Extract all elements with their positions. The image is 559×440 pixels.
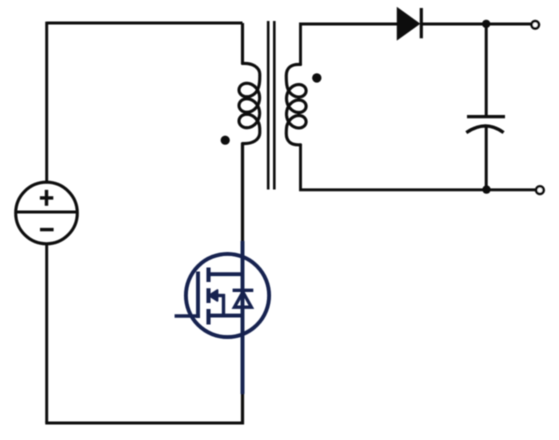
terminal + output [532,21,539,28]
wire left vertical lower [45,244,48,423]
mosfet body circle [186,254,269,337]
dc source V1 [16,182,78,244]
transformer core [268,21,274,190]
node junction top [482,20,490,28]
wire primary top lead [241,23,244,64]
mosfet gate bar [196,272,200,319]
mosfet channel segments [206,268,210,325]
wire mosfet source to bottom rail (black) [241,394,244,424]
transformer T1 secondary winding [286,64,306,144]
transformer T1 primary winding [239,63,260,143]
wire diode to + terminal [422,23,531,26]
polarity dot secondary [312,73,321,82]
mosfet body diode cathode bar [233,289,254,292]
wire top-left rail [47,22,243,25]
mosfet gate lead [175,314,200,318]
mosfet source-body jog [222,294,225,316]
mosfet Q1 [175,241,269,394]
wire secondary top lead [301,24,398,65]
diode D1 [397,8,421,40]
node junction bottom [482,185,490,193]
mosfet body arrow [216,294,225,297]
mosfet drain connection [209,272,243,276]
wire primary bottom lead (black part) [241,143,244,241]
polarity dot primary [221,136,230,145]
wire bottom junction to - terminal [486,188,535,191]
wire secondary bottom lead [301,145,487,190]
mosfet drain-source vertical wire (blue) [241,241,245,394]
wire left vertical upper [45,22,48,182]
wire bottom rail [45,422,244,425]
mosfet source connection [209,314,243,318]
terminal - output [536,186,544,194]
wire capacitor bottom lead [485,126,488,190]
mosfet body diode triangle [234,292,251,307]
wire capacitor top lead [485,24,488,115]
capacitor C1 [466,117,505,133]
